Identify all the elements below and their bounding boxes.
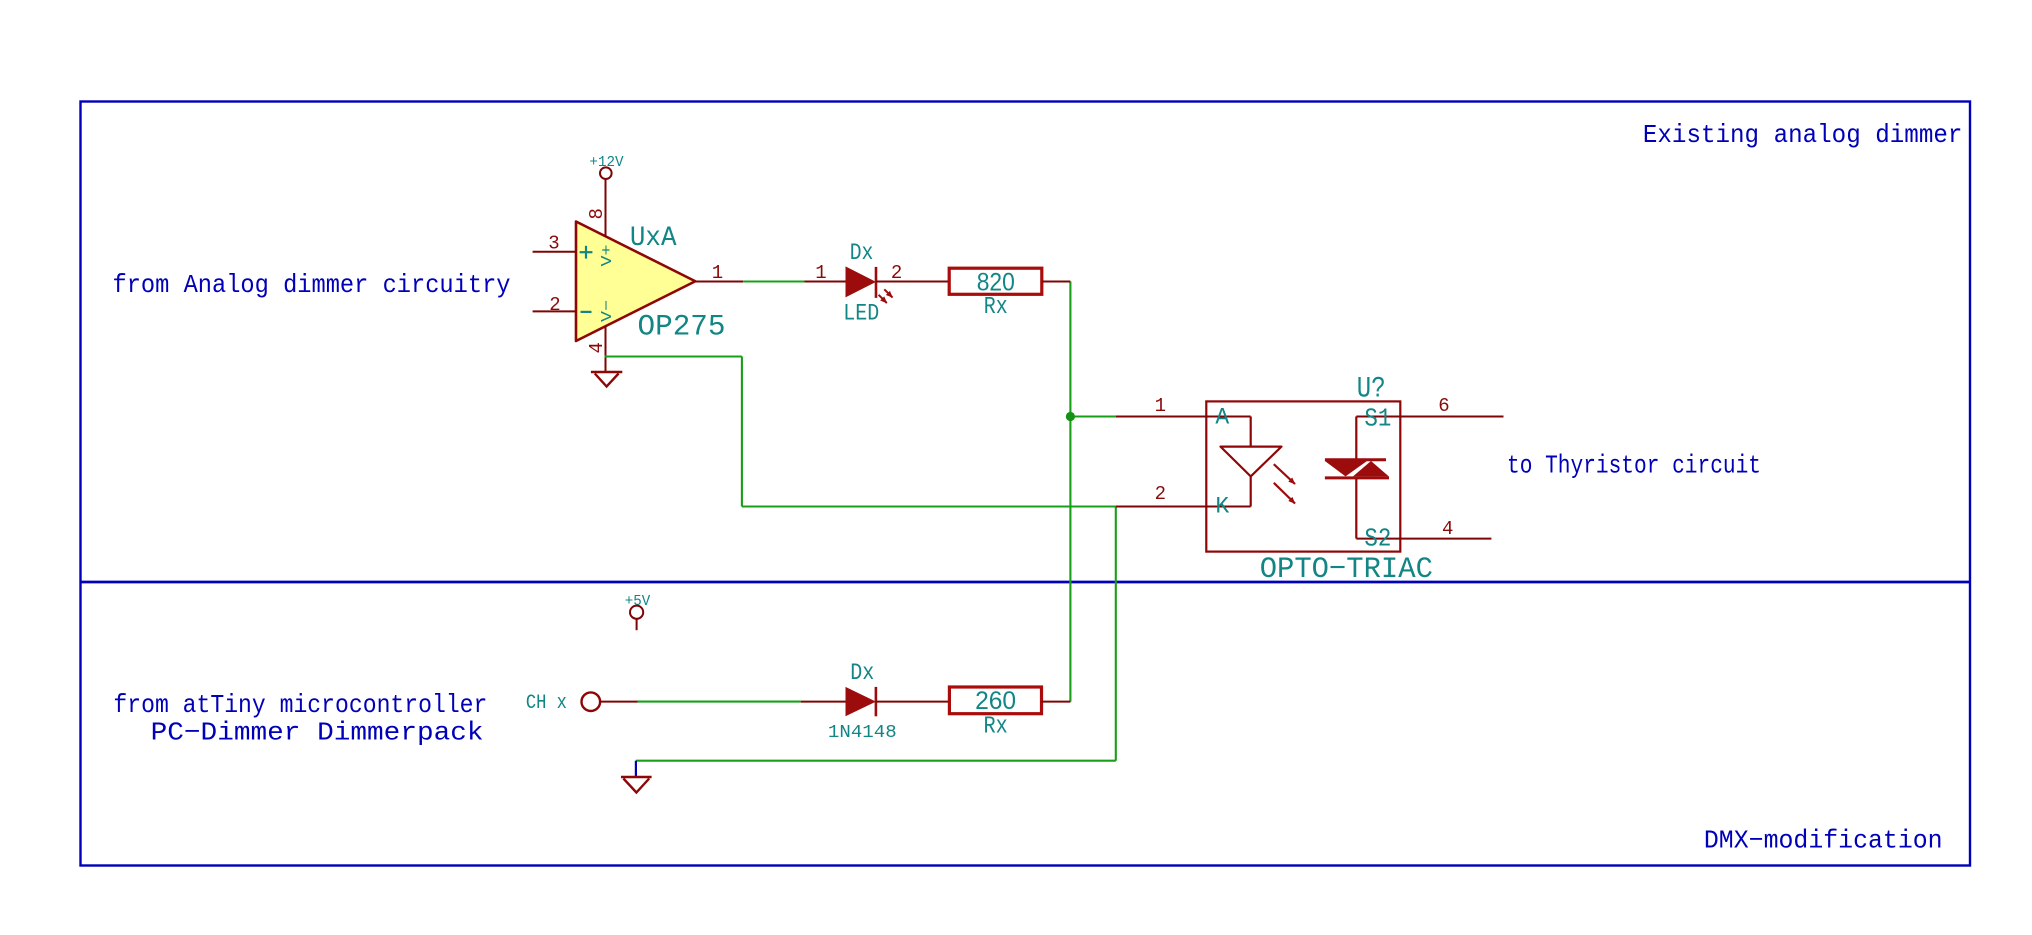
triac right triangle bbox=[1353, 461, 1389, 476]
svg-text:1: 1 bbox=[815, 262, 826, 284]
pin name + (non-inverting input) bbox=[580, 246, 593, 259]
opto emission arrow 2 bbox=[1274, 483, 1295, 504]
diode Dx pin 1 line bbox=[801, 701, 846, 703]
power symbol +5V circle bbox=[630, 606, 643, 619]
svg-text:S2: S2 bbox=[1364, 524, 1391, 554]
svg-text:A: A bbox=[1215, 405, 1229, 431]
svg-text:Dx: Dx bbox=[850, 660, 874, 686]
opto pin 4 line (S2) bbox=[1356, 538, 1491, 540]
wire to opto K pin bbox=[742, 505, 1116, 507]
wire R260 right pin bbox=[1042, 701, 1071, 703]
op-amp pin 1 output line bbox=[695, 281, 743, 283]
LED pin 2 line bbox=[876, 281, 949, 283]
triac top bar bbox=[1325, 458, 1386, 461]
opto internal LED cathode lead bbox=[1250, 476, 1252, 506]
svg-text:4: 4 bbox=[1442, 518, 1453, 540]
svg-text:3: 3 bbox=[548, 232, 559, 254]
svg-text:to Thyristor circuit: to Thyristor circuit bbox=[1507, 451, 1761, 481]
section separator line bbox=[81, 581, 1971, 584]
LED cathode bar bbox=[875, 267, 878, 298]
svg-text:+5V: +5V bbox=[625, 593, 651, 610]
wire from op-amp pin 4 to the right bbox=[605, 355, 742, 357]
resistor Rx 820 body bbox=[949, 268, 1042, 294]
LED Dx pin 1 line bbox=[805, 281, 846, 283]
svg-text:V+: V+ bbox=[599, 245, 616, 267]
wire R820 right pin bbox=[1042, 281, 1071, 283]
diode pin 2 line bbox=[876, 701, 950, 703]
op-amp pin 2 line bbox=[533, 310, 576, 312]
opto pin 1 line (A) bbox=[1116, 416, 1251, 418]
junction node dot bbox=[1066, 412, 1075, 421]
opto emission arrow 1 bbox=[1274, 464, 1295, 484]
opto internal LED triangle bbox=[1221, 447, 1282, 477]
wire from R820 down through junction to R260 bbox=[1069, 282, 1071, 702]
svg-text:OP275: OP275 bbox=[638, 311, 726, 345]
svg-text:from Analog dimmer circuitry: from Analog dimmer circuitry bbox=[113, 270, 511, 300]
triac bottom lead bbox=[1355, 479, 1357, 539]
wire bottom return to ground bbox=[636, 760, 1116, 762]
op-amp pin 3 line bbox=[533, 251, 576, 253]
svg-text:K: K bbox=[1215, 494, 1229, 520]
connector CH x pin line bbox=[600, 701, 638, 703]
svg-text:V−: V− bbox=[599, 300, 616, 322]
svg-text:Rx: Rx bbox=[984, 294, 1008, 321]
triac bottom bar bbox=[1325, 476, 1389, 479]
triac top lead bbox=[1355, 417, 1357, 460]
svg-text:820: 820 bbox=[977, 269, 1015, 297]
svg-text:2: 2 bbox=[1155, 483, 1166, 505]
wire op-amp output to LED bbox=[743, 280, 804, 282]
LED emission arrow 2 bbox=[879, 295, 887, 303]
svg-text:DMX−modification: DMX−modification bbox=[1704, 825, 1943, 855]
opto pin 2 line (K) bbox=[1116, 506, 1251, 508]
svg-text:+12V: +12V bbox=[589, 154, 623, 171]
svg-text:Existing analog dimmer: Existing analog dimmer bbox=[1643, 120, 1963, 150]
wire K column down bbox=[1115, 507, 1117, 761]
svg-text:6: 6 bbox=[1438, 395, 1449, 417]
svg-text:4: 4 bbox=[586, 342, 608, 353]
pin name - (inverting input) bbox=[581, 311, 592, 313]
svg-text:1N4148: 1N4148 bbox=[828, 723, 897, 743]
ground symbol bottom bbox=[621, 777, 652, 793]
LED Dx triangle bbox=[846, 266, 877, 297]
diode cathode bar bbox=[875, 687, 878, 716]
svg-text:from atTiny microcontroller: from atTiny microcontroller bbox=[113, 690, 487, 720]
wire down at x=742 bbox=[741, 357, 743, 507]
svg-text:2: 2 bbox=[891, 262, 902, 284]
svg-text:8: 8 bbox=[586, 208, 608, 219]
op-amp pin 8 line bbox=[605, 180, 607, 237]
op-amp pin 4 line bbox=[605, 326, 607, 372]
sheet border frame bbox=[81, 102, 1971, 866]
wire junction to opto A pin bbox=[1070, 415, 1115, 417]
triac left triangle bbox=[1325, 461, 1367, 476]
svg-text:S1: S1 bbox=[1364, 404, 1391, 434]
power symbol +5V stub bbox=[636, 619, 638, 630]
svg-text:CH x: CH x bbox=[526, 692, 567, 715]
resistor Rx 260 body bbox=[949, 687, 1041, 714]
svg-text:UxA: UxA bbox=[630, 223, 677, 254]
LED emission arrow 1 bbox=[884, 289, 892, 297]
opto internal LED anode lead bbox=[1250, 417, 1252, 447]
blue wire stub to bottom ground bbox=[635, 761, 637, 777]
svg-text:1: 1 bbox=[712, 262, 723, 284]
opto-triac U? body box bbox=[1206, 401, 1400, 551]
svg-text:260: 260 bbox=[975, 687, 1016, 715]
ground symbol at op-amp pin 4 bbox=[591, 372, 622, 387]
svg-text:Rx: Rx bbox=[984, 714, 1008, 741]
svg-text:1: 1 bbox=[1155, 395, 1166, 417]
power symbol +12V circle bbox=[600, 167, 612, 179]
op-amp UxA body bbox=[576, 222, 695, 342]
svg-text:LED: LED bbox=[843, 300, 879, 326]
svg-text:Dx: Dx bbox=[850, 240, 874, 266]
opto pin 6 line (S1) bbox=[1356, 416, 1503, 418]
connector CH x circle bbox=[582, 692, 601, 711]
svg-text:2: 2 bbox=[549, 294, 560, 316]
diode Dx triangle bbox=[846, 687, 876, 716]
wire CH x connector to diode bbox=[638, 701, 801, 703]
svg-text:OPTO−TRIAC: OPTO−TRIAC bbox=[1260, 553, 1433, 587]
svg-text:PC−Dimmer Dimmerpack: PC−Dimmer Dimmerpack bbox=[151, 717, 484, 747]
svg-text:U?: U? bbox=[1357, 373, 1386, 407]
